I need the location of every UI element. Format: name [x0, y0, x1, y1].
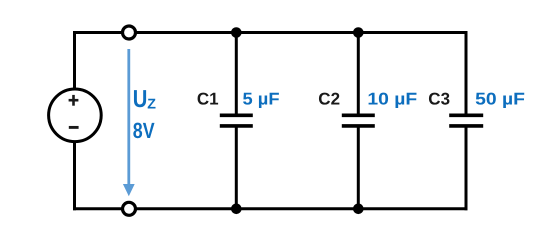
- node junction dot C1 bottom: [231, 204, 242, 215]
- svg-text:C3: C3: [428, 90, 450, 109]
- capacitor C2: [342, 33, 375, 210]
- svg-text:C2: C2: [318, 90, 340, 109]
- svg-text:U: U: [133, 86, 148, 113]
- wire left vertical: [73, 31, 76, 210]
- node junction dot C2 top: [353, 27, 364, 38]
- svg-text:8V: 8V: [133, 118, 155, 143]
- wire bottom horizontal: [73, 207, 468, 210]
- capacitor C3 plates: [449, 115, 483, 126]
- svg-text:10 µF: 10 µF: [367, 90, 417, 109]
- capacitor C1: [220, 33, 253, 210]
- node junction dot C2 bottom: [353, 204, 364, 215]
- terminal node bottom: [123, 202, 136, 215]
- svg-text:C1: C1: [197, 90, 219, 109]
- voltage arrow Uz: [123, 49, 135, 196]
- svg-text:50 µF: 50 µF: [475, 90, 525, 109]
- voltage source U1: [49, 89, 102, 142]
- terminal node top: [123, 26, 136, 39]
- svg-text:5 µF: 5 µF: [243, 90, 280, 109]
- node junction dot C1 top: [231, 27, 242, 38]
- svg-text:Z: Z: [147, 97, 156, 113]
- wire top horizontal: [73, 31, 468, 34]
- wire right vertical (C3 branch): [465, 31, 468, 210]
